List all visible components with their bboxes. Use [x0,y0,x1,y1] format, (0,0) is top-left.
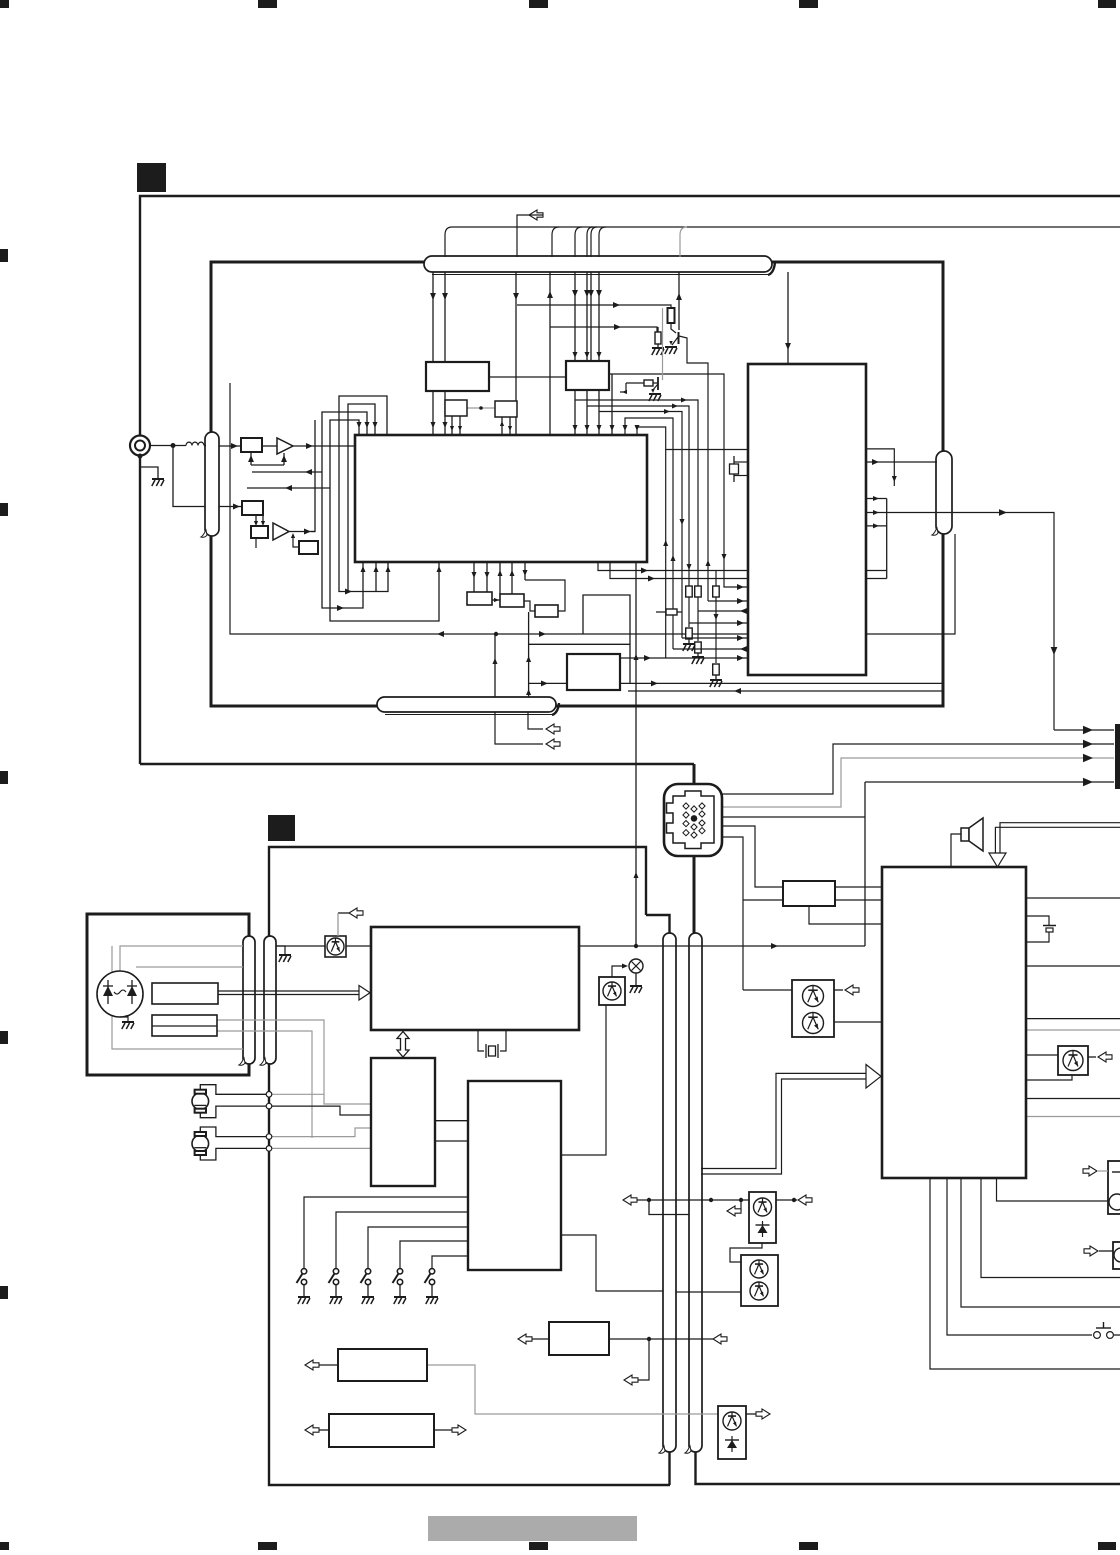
wire into T2 [676,1291,741,1293]
wire PLL to IC pins [432,391,434,435]
transistor+zener box T3 [718,1406,746,1459]
RF amp block [241,438,262,452]
registration mark left 4 [0,1031,8,1044]
registration mark bottom-right [1098,1542,1116,1550]
wire T1 to T2 loop [730,1243,762,1262]
switch S4 [397,1269,402,1274]
wire IF-block out y374 to bundle [609,374,748,587]
IR decoder block [152,1015,217,1036]
external connection open arrow top [529,210,543,220]
open arrow right of T-c [1088,1056,1096,1058]
wire top horizontal to right edge [452,226,1120,228]
photo diode D1 circle [97,971,143,1017]
junction dots y1200 [709,1198,713,1202]
capacitor C-out [1026,916,1049,925]
registration mark left 5 [0,1286,8,1299]
wire amp y1104 [1026,1098,1120,1100]
wire bus drop x575 through IF block [574,272,576,435]
transistor+zener box T1 [749,1192,776,1243]
motor M2 [192,1135,209,1152]
IR receiver block [152,983,218,1004]
tuner PCB inner frame [211,262,943,706]
wire bus riser x587 [587,227,593,257]
main unit frame right lower [668,1445,670,1485]
wire osc feedback [293,536,299,547]
transistor box T-e at edge [1113,1242,1120,1269]
lamp symbol [629,959,643,973]
gray sense wire x662 [662,308,664,380]
wire RN1 input 1 [722,826,783,887]
amp pin wire 3 [961,1178,1120,1307]
wire loop v886 [886,499,888,579]
transistor cluster Q-b [626,382,658,384]
registration mark top 4 [799,0,818,8]
junction dot B1 wire [647,1337,651,1341]
wire v2 to IF decoder y649 [673,648,748,650]
amp pin wire 5 to T-d [997,1178,1109,1201]
wires U4 to U5 [435,1120,468,1122]
registration mark bottom 2 [258,1542,277,1550]
wire pills to key transistor [276,945,325,947]
IF decoder IC U2 [748,364,866,675]
external arrow bottom 2 [495,712,543,744]
external open arrow above Q-key [349,908,363,918]
junction node at antenna [171,443,176,448]
transistor box T-c [1058,1046,1088,1075]
wire AGC block links [524,601,535,611]
block RN1 box [783,881,835,906]
wire lamp driver down [561,1004,606,1155]
bus bar bottom of tuner PCB [385,714,552,716]
wire band select input [219,506,242,508]
wire bus drop x599 through IF block [598,272,600,435]
wire v5 to IF decoder y611 [698,610,748,612]
open arrow right of T3 [746,1413,758,1415]
feedback wire y465 [251,464,284,466]
resistor R-v4 [686,586,693,597]
wire antenna AGC loop [173,446,205,507]
ground under photodiode [120,1017,128,1021]
gray wire IR out 1 [217,1020,324,1095]
AGC block [535,605,558,617]
wire between top blocks y377 [489,376,566,378]
wire speaker to amp [951,834,961,867]
wire y1200 supply [637,1199,749,1201]
wire T1 right [776,1199,797,1201]
crystal X1 [734,461,748,463]
wire U2 output y512 [866,513,1054,731]
transistor Q-a [671,323,676,333]
PLL block [426,362,489,391]
illumination feed wire x636 [635,552,637,946]
wire from mixer down x256 [255,538,257,548]
wire T-c bottom loop [1026,1075,1072,1080]
bus pill remote 2 [264,936,276,1064]
open arrow into B1 [518,1334,532,1344]
hollow signal bus pill to power amp [701,1073,866,1174]
driver IC U4 [371,1058,435,1186]
mesh-right wire y406 [587,406,689,627]
power switch SW-P [1094,1332,1101,1339]
registration mark bottom-left [0,1542,9,1550]
main tuner IC U1 [355,435,647,562]
switch S3 [365,1269,370,1274]
wire mesh loop 4 [330,420,439,621]
output bar (black) [1115,724,1120,789]
wire into T-R [743,989,792,991]
wire to output bar y732 [1054,729,1114,731]
wire under-IC long y691 [628,690,943,692]
open arrow out of B3 [434,1429,452,1431]
hollow arrow power input top [995,823,1120,853]
wire amp out y898 [1026,897,1120,899]
wire long return y634 [230,383,955,634]
band select block [242,501,263,515]
antenna jack [130,436,150,456]
resistor R-v5b with ground [695,642,702,653]
wire v4 to IF decoder y623 [689,622,748,624]
wire v6 to IF decoder y601 [708,600,748,602]
divider block A [445,400,467,416]
resistor R-e [655,332,661,344]
system microcontroller IC U3 [371,927,579,1030]
wire IC bottom pins group [473,562,475,592]
hollow signal arrow remote to micro [218,991,359,995]
resistor R-v5 [695,586,702,597]
ground at antenna [140,455,158,478]
amp pin wire 2 to power switch [947,1178,1092,1335]
wire return to bottom bus x495 [494,634,496,697]
detector block [467,592,492,605]
wire loop y595 [583,595,630,683]
switch S2 [333,1269,338,1274]
buffer amp A1 [277,438,293,454]
wire bias y327 [550,327,657,332]
wire bus riser x552 [552,227,559,257]
wire v3 to IF decoder y638 [682,637,748,639]
mechanism controller IC U5 [468,1081,561,1270]
thick link outer frame to connector [693,764,696,786]
wire bus drop x587 through IF block [586,272,588,435]
section marker square 1 (tuner unit) [137,163,166,192]
open arrow at T-d [1083,1166,1097,1176]
wire stub y498 [866,498,887,500]
mesh-right wire y418 [625,418,673,649]
divider block B [495,401,517,417]
registration mark left 1 [0,249,8,262]
transistor box T-d at edge [1108,1161,1120,1214]
multi-pin connector CN1 [664,784,722,856]
audio block under IC [567,654,620,690]
mesh-right wire y411 [599,412,682,639]
amp pin wire 1 [930,1178,1120,1369]
junction dot y946 [634,944,638,948]
registration mark top-left [0,0,9,8]
divider pins to IC [451,416,453,435]
wire y1019 [1026,1018,1120,1020]
resistor R-v7 [713,586,720,597]
gray wire IR out 2 [217,1031,312,1138]
switch S1 [301,1269,306,1274]
wire mesh loop 2 [348,404,375,592]
block B3 [329,1414,434,1447]
wire micro to bar y782 [722,816,865,818]
inductor L1 [186,442,206,445]
wire bus drop x788 to IF decoder [787,272,789,364]
wires RN1 to power amp [835,886,882,888]
hollow updown arrow micro-driver [397,1032,409,1058]
gray wire B2 to T3 [427,1365,718,1414]
section marker square 2 (main unit) [268,815,295,841]
wire RF input [219,445,241,447]
wire stub y526 [866,525,887,527]
mixer block [251,526,268,538]
feedback wire y488 [247,487,330,489]
wire junction down to arrow [638,1339,649,1380]
resistor R-v4b with ground [686,628,693,639]
wire bus riser x575 [575,227,582,257]
block B2 [338,1349,427,1381]
horizontal resistor R-h [666,609,677,615]
wire loop y449 [866,449,894,486]
switch S3 wire [368,1227,468,1268]
gray wire y1120 [1026,1116,1120,1118]
oscillator block [299,541,318,554]
wire v1 hairpin y449 [666,449,748,451]
bus bar top (tuner control bus) [432,274,768,276]
wire IC right pins to resistor bank [598,562,887,571]
power amplifier IC U6 [882,867,1026,1178]
open arrow right of pills y1339 [713,1334,727,1344]
wire mixer drops [254,521,258,526]
wire bus drop x550 [549,272,551,435]
bus pill remote 1 [243,936,255,1064]
mesh-right wire y427 [637,427,666,658]
main unit frame (left) [269,847,670,1485]
tuner section outer frame bottom edge [140,763,694,765]
wire B1 to bus [609,1338,713,1340]
switch S5 [429,1269,434,1274]
registration mark top 2 [258,0,277,8]
wire bus drop x516 (gray) [515,272,517,435]
bus pill tuner output [936,451,952,534]
wire T-R to power amp [834,1021,882,1023]
transistor box T2 (double) [741,1255,778,1306]
buffer amp A2 output wire [289,531,315,533]
motor M1 [192,1093,209,1110]
wire bias y305 [517,305,671,308]
open arrow into B2 [305,1360,319,1370]
wire bus drop x445 [444,272,446,362]
resistor R-bias [668,308,675,323]
feedback wire y472 [252,471,322,473]
transistor Q-key in box [325,936,346,957]
bus pill antenna input [205,432,219,536]
open arrow at T-e [1084,1246,1098,1256]
switch S1 wire [304,1197,468,1268]
switch S4 wire [400,1241,468,1268]
thick link connector to lower right unit [693,853,696,940]
gray link between dividers [467,407,495,409]
registration mark top 3 [529,0,548,8]
wire mesh loop 1 [339,396,388,592]
switch S5 wire [432,1256,468,1268]
switch S2 wire [336,1212,468,1268]
remote sensor unit frame [87,914,249,1075]
registration mark left 3 [0,771,8,784]
registration mark bottom 4 [799,1542,818,1550]
wire bus drop x433 [432,272,434,362]
gray wires remote loop [120,946,243,972]
wire micro to bus y946 [579,945,865,947]
wire osc riser x315 [311,420,315,532]
gray wire connector to bar y758 [722,758,1114,807]
external arrow bottom 1 [528,712,543,729]
wire bus riser x599 [599,227,606,257]
motor connector nodes [266,1092,272,1098]
block B1 (display data) [549,1322,609,1355]
registration mark left 2 [0,503,8,516]
wire bus drop x591 [590,272,592,361]
buffer amp A1 output wire [262,445,277,447]
crystal X2 under micro [478,1030,484,1051]
speaker icon [961,828,969,841]
resistor R-v7b with ground [713,664,720,675]
bus pill interconnect right [689,933,702,1452]
wire to Tc y1055 [1026,1054,1058,1056]
wire U2 to bus pill y462 [866,461,937,463]
wire mesh loop 3 [322,412,367,608]
motor wires to driver [272,1094,371,1104]
transistor pair box T-R [792,980,834,1037]
ground right of remote pills [276,946,285,954]
open arrow right of T-R [834,989,843,991]
amp unit frame bottom [696,1445,1120,1484]
wire bus riser x680 (gray top) [680,227,687,257]
gray wire y1030 [1026,1029,1120,1031]
lamp driver transistor box Q-l [599,977,625,1005]
wire connector to bar y744 [722,744,1114,794]
IF block [566,361,609,390]
buffer amp A2 [273,523,289,540]
wire bus drop x679 [678,272,680,330]
wire RN1 input 2 [722,837,743,990]
junction on return wire [494,632,498,636]
open arrow into B3 [305,1425,319,1435]
bundle wire v7 [715,571,717,664]
amp pin wire 4 [981,1178,1120,1278]
wire U5 to pill [561,1235,663,1291]
horizontal resistor R-h wire [656,611,682,613]
wire driver to lamp arrow [612,966,626,977]
registration mark bottom 3 [529,1542,548,1550]
tuner section outer frame [140,196,1120,764]
registration mark top-right [1098,0,1116,8]
bus pill interconnect left [663,933,676,1452]
filter block [500,594,524,607]
gray footer label box [428,1516,637,1541]
wire audio to IF decoder y658 [620,657,748,659]
wire under-IC long y683 [529,682,943,684]
main unit frame jog [646,915,670,940]
wire bus riser x591 [591,227,597,257]
lamp ground [635,973,637,985]
open arrow stub y1211 [740,1200,741,1211]
mesh-right wire y400 [575,400,698,641]
wire amp out y966 [1026,965,1120,967]
